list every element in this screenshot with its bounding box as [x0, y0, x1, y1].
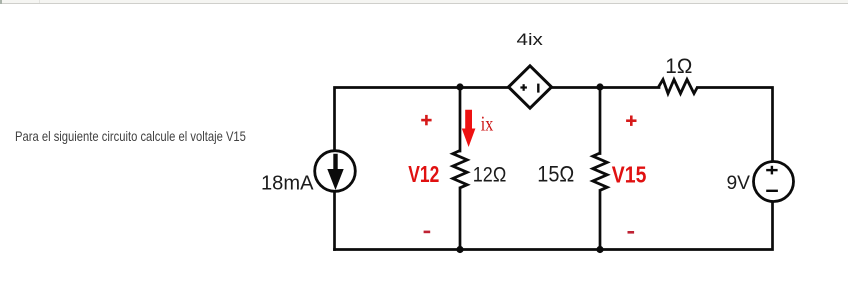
svg-text:12Ω: 12Ω	[473, 162, 507, 186]
svg-text:1Ω: 1Ω	[665, 54, 692, 78]
svg-text:ix: ix	[481, 112, 494, 136]
svg-text:4ix: 4ix	[517, 30, 544, 49]
svg-text:V15: V15	[612, 162, 647, 188]
svg-text:V12: V12	[408, 161, 439, 187]
svg-text:18mA: 18mA	[261, 173, 314, 195]
svg-text:15Ω: 15Ω	[537, 162, 574, 187]
svg-text:9V: 9V	[727, 173, 751, 194]
